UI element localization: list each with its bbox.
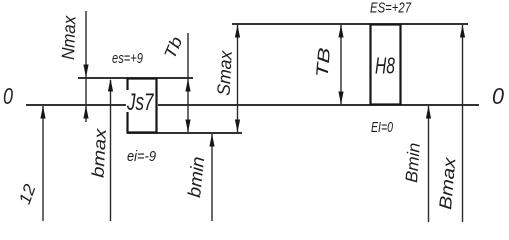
dim line Smax: [237, 25, 239, 132]
dim line Tb: [187, 33, 189, 132]
es line (+9): [78, 77, 193, 79]
arrowheads: [40, 25, 465, 147]
svg-text:0: 0: [492, 83, 504, 109]
svg-text:H8: H8: [375, 53, 395, 79]
arrow TB up at ES line: [338, 25, 343, 38]
svg-text:es=+9: es=+9: [112, 50, 143, 67]
svg-text:bmax: bmax: [89, 128, 111, 179]
svg-text:Js7: Js7: [126, 89, 154, 116]
svg-text:bmin: bmin: [184, 156, 208, 199]
arrow Smax down at ei line: [235, 120, 240, 133]
ES line (+27): [232, 23, 468, 25]
arrow bmin up at ei line: [209, 134, 214, 147]
dim line TB: [340, 25, 342, 104]
svg-text:ES=+27: ES=+27: [370, 0, 411, 17]
arrow Tb down at ei line: [185, 120, 190, 133]
arrow Tb up at es line: [185, 79, 190, 92]
dim line Bmax: [462, 25, 464, 222]
dim line Bmin: [428, 106, 430, 222]
svg-text:EI=0: EI=0: [371, 119, 393, 136]
dim line 12: [42, 106, 44, 221]
zero line right segment: [158, 104, 479, 106]
zero line left segment: [26, 104, 126, 106]
arrow Nmax up at zero line (below): [83, 106, 88, 119]
arrow Bmax up at ES line: [460, 25, 465, 38]
dim line bmin: [211, 134, 213, 221]
arrow bmax up at es line: [108, 79, 113, 92]
tolerance zone Js7 box: [127, 78, 158, 133]
arrow 12 up at zero line: [40, 106, 45, 119]
dimension stems: [43, 11, 463, 222]
tolerance zone H8 box: [371, 25, 401, 105]
arrow TB down at zero line: [338, 92, 343, 105]
dim line bmax: [110, 80, 112, 221]
ei line (-9): [127, 132, 242, 134]
svg-text:ei=-9: ei=-9: [127, 148, 157, 165]
arrow Nmax down at es line (above): [83, 65, 88, 78]
svg-text:TB: TB: [313, 47, 335, 79]
arrow Bmin up at zero line: [426, 106, 431, 119]
svg-text:Smax: Smax: [214, 49, 236, 96]
svg-text:Nmax: Nmax: [58, 15, 80, 61]
svg-text:0: 0: [3, 83, 13, 109]
arrow Smax up at ES line: [235, 25, 240, 38]
dim line Nmax: [85, 11, 87, 122]
svg-text:Bmin: Bmin: [402, 142, 424, 183]
